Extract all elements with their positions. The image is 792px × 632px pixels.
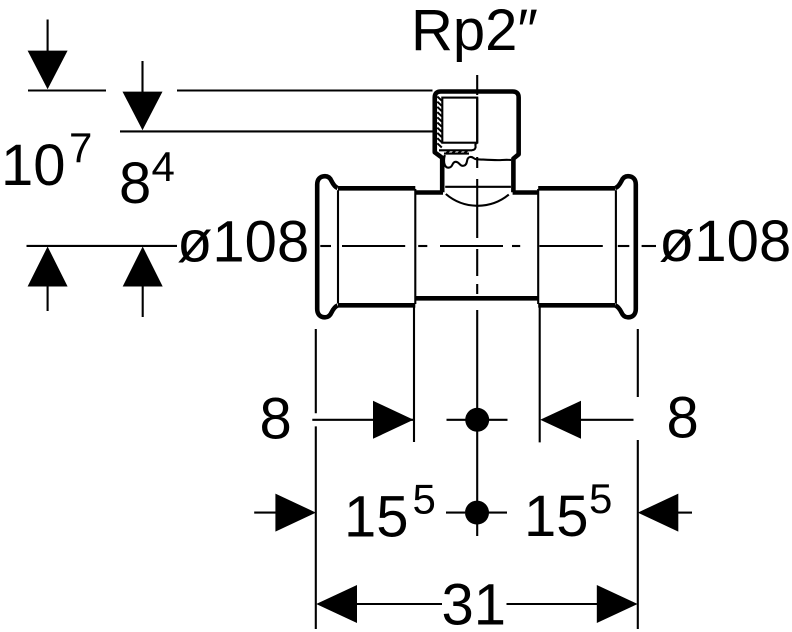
svg-text:4: 4	[152, 143, 175, 190]
svg-text:15: 15	[344, 485, 409, 550]
svg-text:31: 31	[442, 573, 507, 632]
svg-text:8: 8	[260, 387, 292, 452]
svg-text:5: 5	[413, 476, 436, 523]
svg-text:7: 7	[69, 124, 92, 171]
svg-text:10: 10	[1, 133, 66, 198]
svg-text:ø108: ø108	[659, 209, 791, 274]
svg-text:15: 15	[524, 484, 589, 549]
svg-text:8: 8	[667, 386, 699, 451]
svg-text:8: 8	[119, 151, 151, 216]
svg-text:ø108: ø108	[177, 210, 309, 275]
svg-text:5: 5	[589, 475, 612, 522]
svg-text:Rp2″: Rp2″	[411, 0, 538, 63]
